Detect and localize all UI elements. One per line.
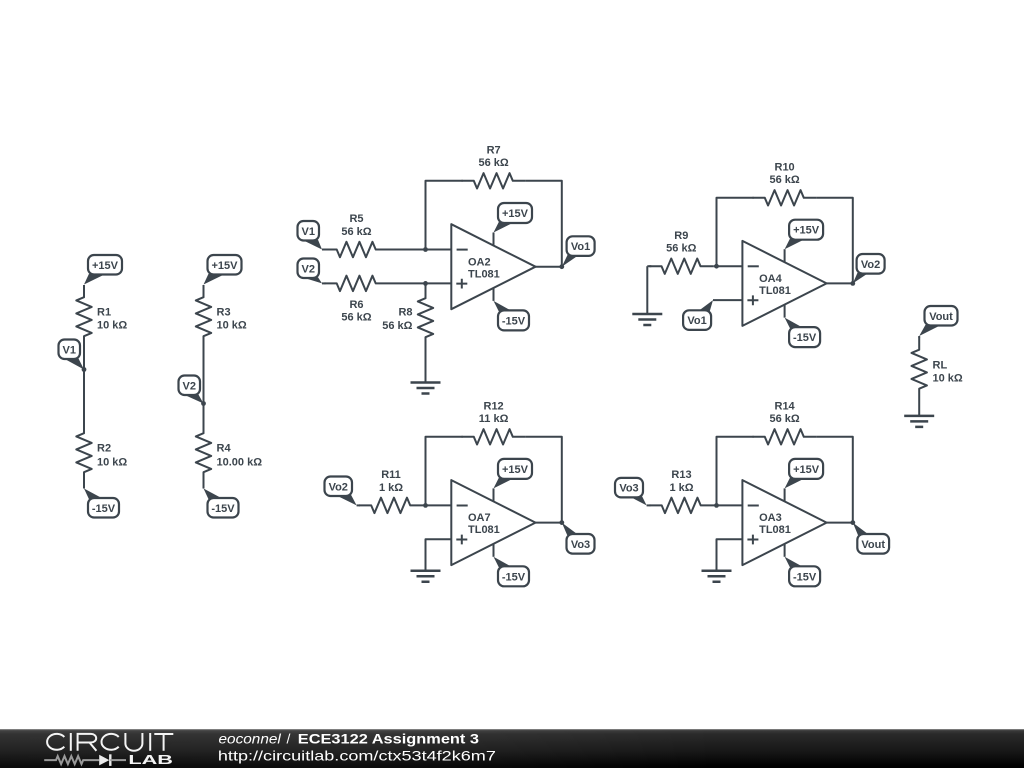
svg-text:OA2: OA2 (468, 256, 491, 268)
svg-text:OA7: OA7 (468, 512, 491, 524)
svg-text:Vo2: Vo2 (861, 259, 880, 271)
svg-text:Vo2: Vo2 (329, 481, 348, 493)
svg-text:R13: R13 (671, 469, 691, 481)
svg-text:LAB: LAB (128, 752, 173, 767)
svg-text:Vout: Vout (861, 539, 885, 551)
svg-text:TL081: TL081 (468, 268, 500, 280)
svg-text:Vo1: Vo1 (687, 315, 706, 327)
svg-text:TL081: TL081 (468, 524, 500, 536)
svg-text:56 kΩ: 56 kΩ (769, 174, 799, 186)
svg-text:R1: R1 (97, 307, 111, 319)
svg-text:Vo3: Vo3 (571, 539, 590, 551)
svg-text:-15V: -15V (92, 503, 116, 515)
svg-text:R8: R8 (398, 307, 412, 319)
svg-text:R9: R9 (674, 230, 688, 242)
svg-text:R5: R5 (349, 213, 363, 225)
svg-text:R4: R4 (217, 443, 232, 455)
svg-text:+15V: +15V (793, 464, 820, 476)
svg-text:R12: R12 (484, 400, 504, 412)
svg-text:Vo3: Vo3 (619, 483, 638, 495)
svg-text:-15V: -15V (502, 571, 526, 583)
svg-text:OA3: OA3 (759, 512, 782, 524)
svg-text:+15V: +15V (793, 225, 820, 237)
svg-text:ECE3122 Assignment 3: ECE3122 Assignment 3 (298, 731, 479, 747)
svg-text:R7: R7 (487, 144, 501, 156)
svg-text:+15V: +15V (502, 464, 529, 476)
svg-text:R3: R3 (217, 307, 231, 319)
svg-text:eoconnel: eoconnel (219, 731, 282, 747)
svg-text:V1: V1 (302, 226, 315, 238)
svg-text:11 kΩ: 11 kΩ (479, 413, 509, 425)
svg-text:+15V: +15V (502, 208, 529, 220)
svg-text:Vout: Vout (929, 311, 953, 323)
svg-text:+15V: +15V (212, 260, 239, 272)
svg-text:-15V: -15V (211, 503, 235, 515)
svg-text:+15V: +15V (92, 260, 119, 272)
svg-text:RL: RL (933, 360, 948, 372)
svg-text:R2: R2 (97, 443, 111, 455)
svg-text:10.00 kΩ: 10.00 kΩ (217, 457, 263, 469)
svg-text:http://circuitlab.com/ctx53t4f: http://circuitlab.com/ctx53t4f2k6m7 (218, 747, 496, 763)
svg-text:56 kΩ: 56 kΩ (382, 320, 412, 332)
svg-text:-15V: -15V (793, 332, 817, 344)
svg-text:TL081: TL081 (759, 524, 791, 536)
svg-text:/: / (287, 731, 291, 747)
svg-text:1 kΩ: 1 kΩ (379, 482, 403, 494)
svg-text:TL081: TL081 (759, 285, 791, 297)
svg-text:56 kΩ: 56 kΩ (341, 312, 371, 324)
svg-text:OA4: OA4 (759, 273, 783, 285)
svg-text:Vo1: Vo1 (571, 241, 590, 253)
svg-text:1 kΩ: 1 kΩ (669, 482, 693, 494)
svg-text:R11: R11 (381, 469, 401, 481)
svg-text:V2: V2 (302, 263, 315, 275)
svg-text:56 kΩ: 56 kΩ (769, 413, 799, 425)
svg-text:10 kΩ: 10 kΩ (217, 320, 247, 332)
svg-text:R14: R14 (775, 400, 796, 412)
svg-text:10 kΩ: 10 kΩ (97, 320, 127, 332)
svg-text:R6: R6 (349, 299, 363, 311)
svg-text:R10: R10 (775, 161, 795, 173)
svg-text:56 kΩ: 56 kΩ (478, 157, 508, 169)
svg-text:10 kΩ: 10 kΩ (933, 373, 963, 385)
svg-text:V2: V2 (183, 380, 196, 392)
svg-text:-15V: -15V (793, 571, 817, 583)
svg-text:56 kΩ: 56 kΩ (666, 243, 696, 255)
svg-text:56 kΩ: 56 kΩ (341, 226, 371, 238)
svg-text:-15V: -15V (502, 315, 526, 327)
svg-text:V1: V1 (63, 344, 76, 356)
svg-text:10 kΩ: 10 kΩ (97, 457, 127, 469)
